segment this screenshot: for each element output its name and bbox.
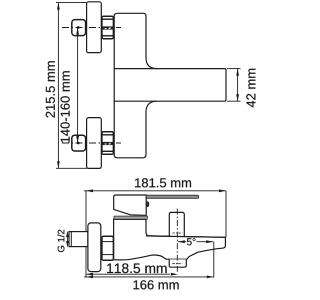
dimension 118.5 mm: [86, 273, 170, 275]
center tick lower: [172, 263, 182, 265]
centerline top inlet: [62, 27, 121, 29]
dimension 166 mm: [84, 276, 214, 278]
centerline bottom inlet: [62, 142, 121, 144]
extension line spout tip: [225, 191, 227, 238]
G 1/2 label: [57, 230, 64, 252]
G 1/2 size arrows: [66, 232, 68, 247]
wall flange top (escutcheon): [87, 2, 102, 53]
dimension 181.5 mm: [84, 190, 226, 192]
eccentric center dot top: [77, 26, 80, 29]
nut bottom: [102, 132, 114, 154]
G 1/2 nipple: [69, 232, 88, 247]
eccentric connector bottom: [72, 135, 86, 151]
faucet body + spout outline (plan): [114, 13, 226, 158]
extension line 166 (spout outlet): [213, 242, 215, 278]
nut top: [102, 16, 114, 38]
5 degree annotation: [178, 241, 213, 243]
handle block: [114, 195, 147, 215]
dimension 42 mm: [227, 69, 241, 102]
cartridge collar (gray band): [114, 216, 147, 219]
diverter centerline: [176, 209, 178, 272]
eccentric center dot bottom: [77, 142, 80, 145]
nut top centerline band: [102, 26, 114, 29]
handle lever bar: [146, 195, 199, 198]
shower outlet cylinder (on top of spout): [169, 212, 184, 236]
text label 140-160 mm: [61, 71, 70, 142]
eccentric connector top: [72, 20, 86, 36]
handle pivot nub: [146, 201, 149, 207]
nut (side): [102, 236, 114, 260]
dimension 140-160 mm: [77, 28, 79, 144]
wall flange (side): [88, 223, 101, 272]
body + spout outline (side): [114, 219, 226, 259]
spout top edge (through cylinder): [146, 236, 225, 237]
dimension 215.5 mm: [56, 3, 87, 169]
wall flange bottom (escutcheon): [87, 118, 102, 169]
spout bar line upper crossing body: [114, 68, 157, 70]
wall extension line: [85, 191, 87, 278]
diverter knob below spout: [169, 259, 186, 267]
spout bar line lower crossing body: [114, 100, 157, 102]
nut bottom centerline band: [102, 142, 114, 145]
center tick upper: [172, 232, 182, 234]
